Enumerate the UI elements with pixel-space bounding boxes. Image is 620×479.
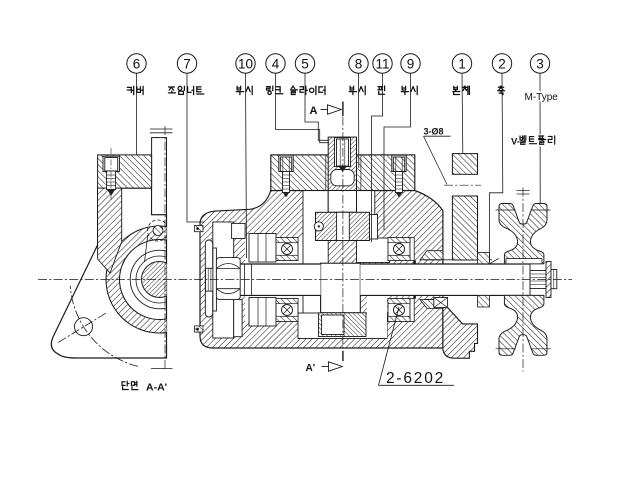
- svg-text:3-Ø8: 3-Ø8: [424, 127, 444, 137]
- svg-text:2-6202: 2-6202: [386, 370, 445, 387]
- svg-text:M-Type: M-Type: [525, 92, 559, 103]
- svg-text:8: 8: [355, 56, 363, 71]
- svg-text:3: 3: [536, 56, 544, 71]
- svg-text:11: 11: [375, 56, 389, 71]
- svg-text:10: 10: [238, 56, 253, 71]
- svg-text:A': A': [306, 363, 316, 374]
- svg-text:7: 7: [183, 56, 191, 71]
- svg-text:9: 9: [407, 56, 415, 71]
- svg-text:2: 2: [498, 56, 506, 71]
- svg-text:1: 1: [458, 56, 466, 71]
- svg-text:4: 4: [272, 56, 280, 71]
- svg-text:6: 6: [133, 56, 141, 71]
- svg-text:V-: V-: [511, 137, 520, 148]
- svg-text:A: A: [310, 105, 318, 117]
- svg-text:A-A': A-A': [146, 381, 167, 393]
- svg-text:5: 5: [301, 56, 309, 71]
